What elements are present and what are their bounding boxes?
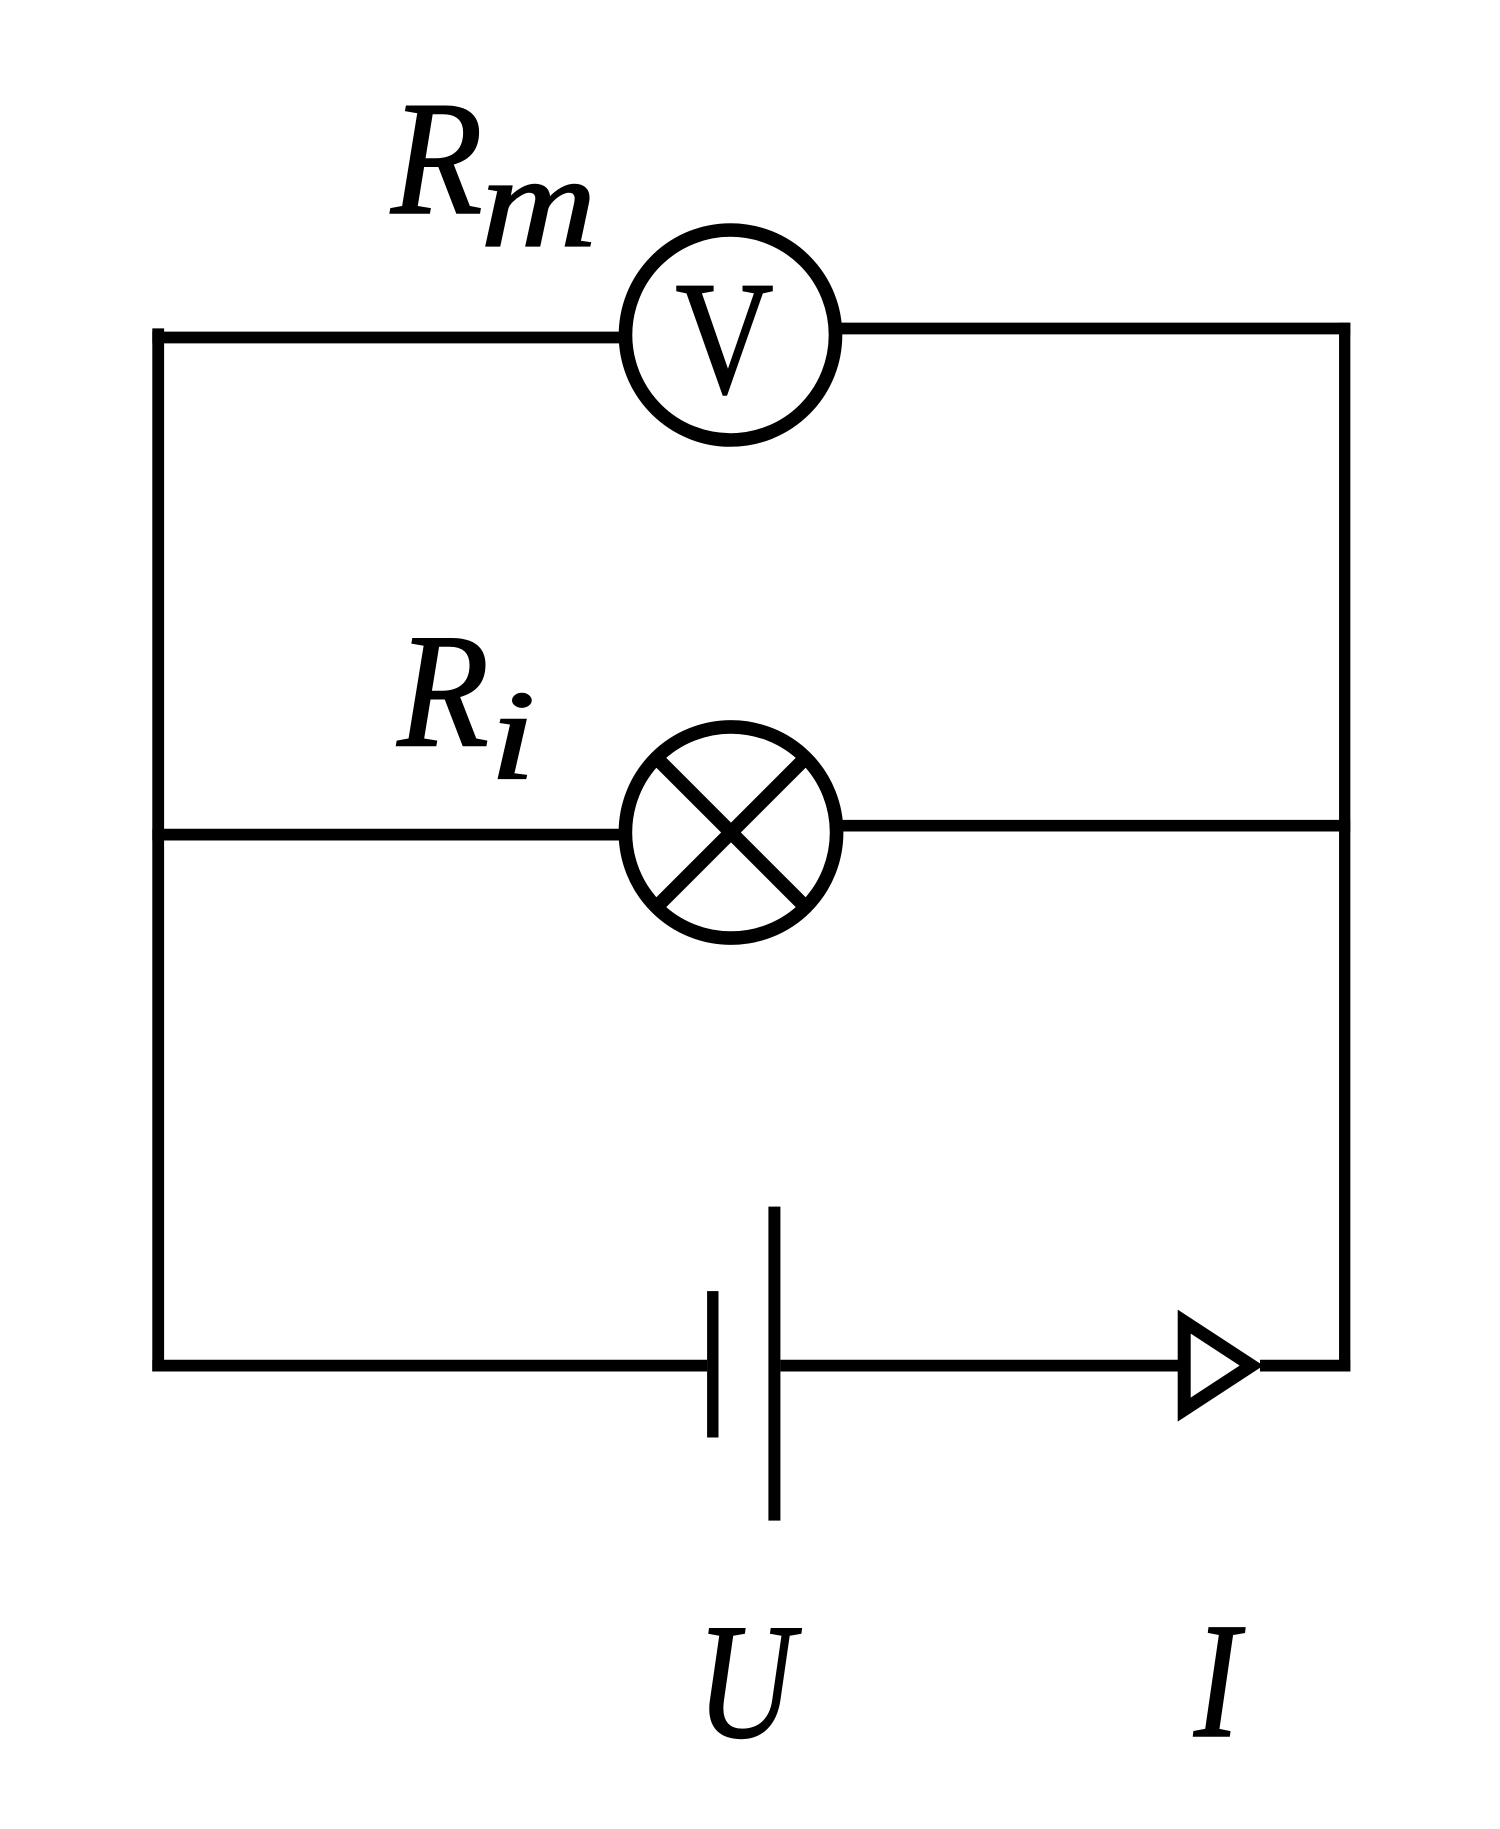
wire: left vertical bus: [152, 328, 164, 1371]
svg-text:U: U: [697, 1590, 803, 1773]
wire: bottom branch, middle segment: [780, 1360, 1184, 1372]
svg-text:R: R: [390, 67, 483, 248]
battery negative plate (short): [707, 1291, 718, 1437]
svg-text:m: m: [481, 130, 597, 274]
wire: top branch, left segment: [152, 332, 622, 344]
current direction arrow (current I): [1184, 1322, 1251, 1410]
battery cell (source U): [707, 1207, 780, 1521]
svg-text:I: I: [1193, 1589, 1245, 1772]
wire: bottom branch, left segment: [152, 1360, 707, 1372]
value label R_m (voltmeter internal resistance): [390, 67, 597, 274]
lamp cross stroke /: [652, 753, 810, 911]
svg-text:i: i: [490, 665, 536, 806]
wire: middle branch, right segment: [840, 820, 1350, 832]
wire: right vertical bus: [1339, 323, 1350, 1372]
svg-text:V: V: [675, 250, 773, 429]
battery positive plate (long): [768, 1207, 780, 1521]
lamp body circle: [625, 727, 836, 938]
voltmeter V (resistance R_m): [626, 230, 836, 440]
wire: top branch, right segment: [840, 323, 1350, 335]
svg-text:R: R: [396, 600, 489, 781]
lamp cross stroke \: [652, 753, 810, 911]
lamp (resistance R_i): [625, 727, 836, 938]
voltmeter body circle: [626, 230, 836, 440]
value label R_i (lamp resistance): [396, 600, 535, 807]
wire: middle branch, left segment: [152, 829, 622, 841]
wire: bottom branch, right segment: [1260, 1360, 1350, 1372]
